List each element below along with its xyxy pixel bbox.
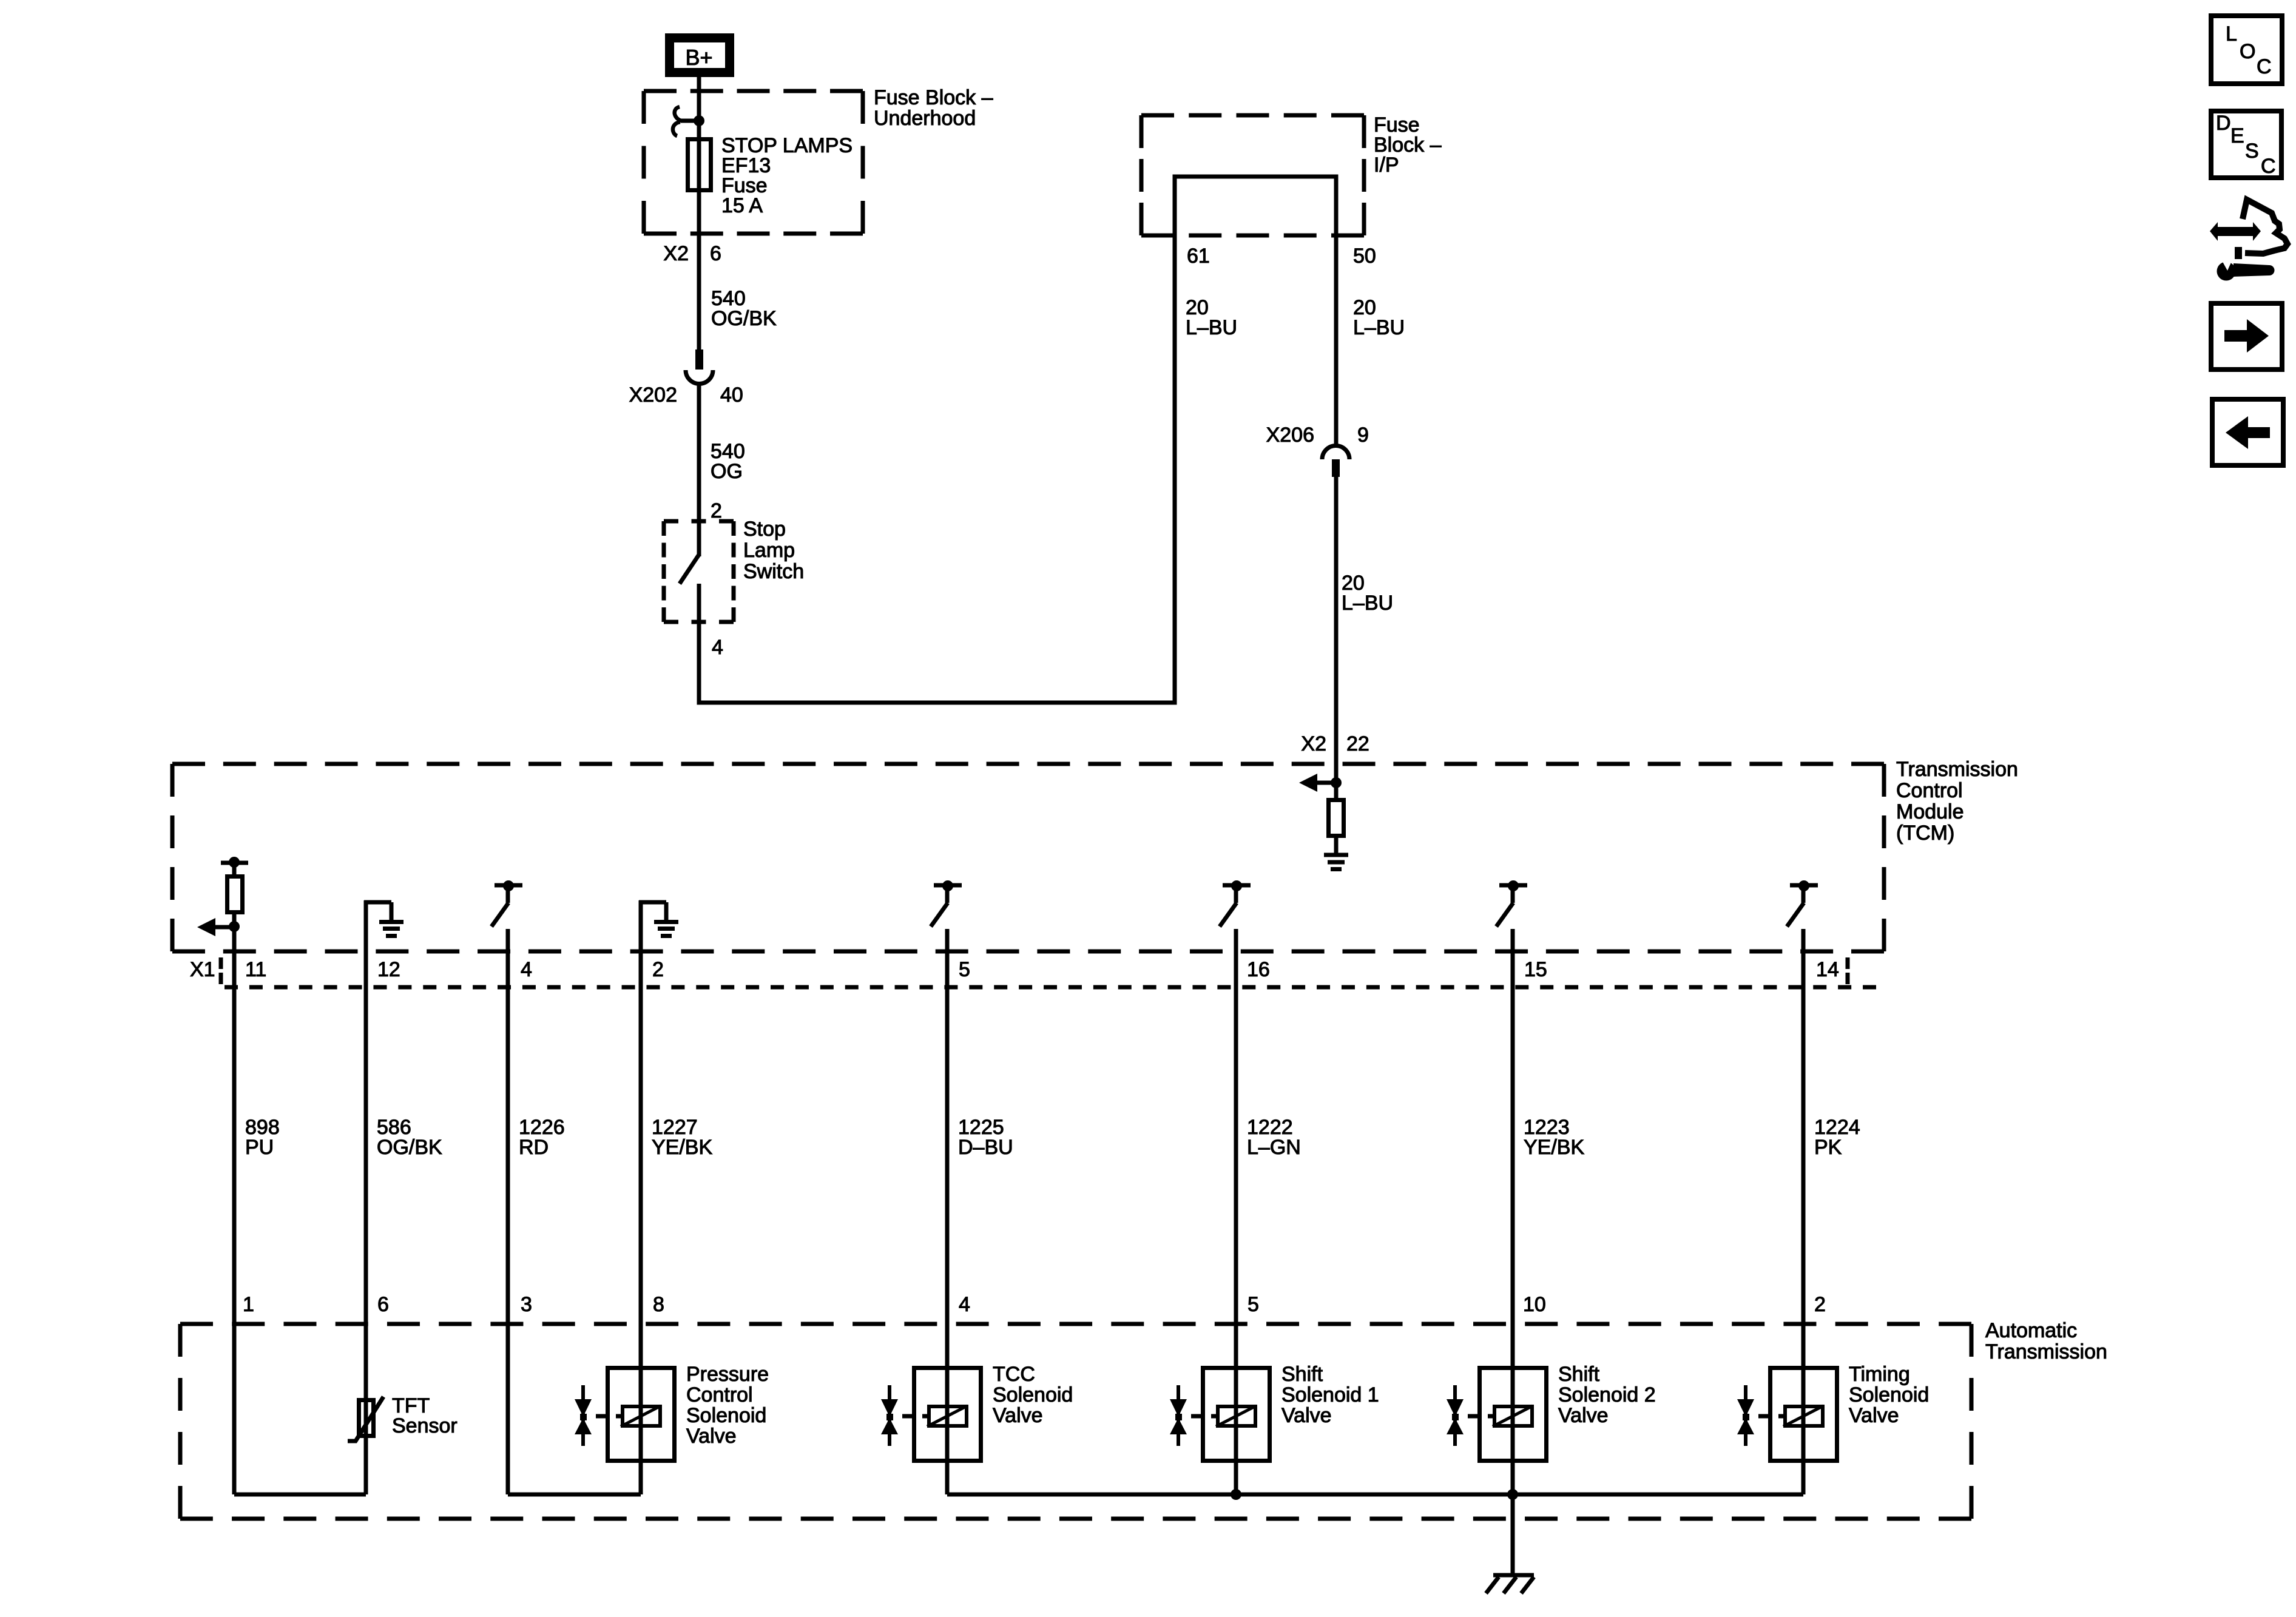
svg-text:C: C	[2261, 155, 2276, 178]
svg-text:Transmission: Transmission	[1896, 758, 2018, 781]
svg-text:6: 6	[710, 242, 721, 265]
svg-text:3: 3	[521, 1293, 532, 1316]
TCM entry arrow at pin 22	[1299, 774, 1317, 792]
svg-text:2: 2	[711, 499, 722, 522]
wire 1226 RD	[506, 929, 510, 1494]
TCM driver switch (wire 1223)	[1499, 883, 1527, 888]
svg-text:X206: X206	[1266, 424, 1314, 447]
wire 586 OG/BK	[364, 900, 368, 1494]
TFT sensor	[359, 1400, 374, 1436]
svg-text:O: O	[2240, 40, 2255, 63]
svg-text:40: 40	[720, 383, 743, 407]
svg-text:Solenoid: Solenoid	[993, 1383, 1073, 1406]
wire B+ to X202	[697, 76, 701, 370]
X1 connector dotted line	[225, 985, 1876, 990]
svg-text:OG: OG	[711, 460, 743, 483]
TFT sensor return bus	[234, 1493, 366, 1497]
svg-text:Valve: Valve	[993, 1404, 1043, 1427]
wire 1222 L-GN	[1234, 929, 1238, 1494]
junction dot at fuse feed	[694, 115, 704, 126]
svg-text:TCC: TCC	[993, 1363, 1035, 1386]
svg-text:Pressure: Pressure	[686, 1363, 769, 1386]
wire stop lamp switch to fuse block I/P pin 61	[699, 177, 1336, 703]
TCM internal ground (wire 586)	[364, 900, 391, 905]
svg-text:D–BU: D–BU	[958, 1136, 1013, 1159]
svg-text:Solenoid 1: Solenoid 1	[1281, 1383, 1379, 1406]
solenoid common ground bus	[947, 1493, 1803, 1497]
svg-text:X1: X1	[190, 958, 215, 981]
svg-text:9: 9	[1357, 424, 1369, 447]
svg-text:11: 11	[245, 958, 266, 981]
svg-text:Timing: Timing	[1849, 1363, 1910, 1386]
svg-text:C: C	[2257, 55, 2272, 78]
DESC icon box	[2211, 111, 2281, 178]
svg-text:E: E	[2230, 124, 2244, 147]
ground drop wire	[1511, 1494, 1515, 1575]
svg-text:6: 6	[377, 1293, 389, 1316]
pressure control return bus	[508, 1493, 641, 1497]
TCM sensor supply: bar, resistor and arrow (wire 898)	[221, 861, 248, 865]
TCM driver switch (wire 1224)	[1790, 883, 1818, 888]
forward arrow icon	[2211, 303, 2282, 370]
fuse block underhood box	[644, 89, 863, 93]
svg-text:12: 12	[377, 958, 400, 981]
svg-text:Fuse Block –: Fuse Block –	[874, 86, 993, 109]
TCM driver switch (wire 1222)	[1223, 883, 1251, 888]
TCC solenoid valve	[914, 1368, 981, 1461]
svg-text:L–BU: L–BU	[1342, 592, 1393, 615]
back arrow icon	[2212, 399, 2283, 465]
transmission control module box	[172, 762, 1884, 766]
svg-text:Solenoid: Solenoid	[686, 1404, 766, 1427]
svg-text:YE/BK: YE/BK	[652, 1136, 712, 1159]
svg-text:50: 50	[1353, 245, 1376, 268]
stop lamp switch box	[664, 519, 734, 524]
svg-text:X2: X2	[663, 242, 689, 265]
LOC icon box	[2211, 16, 2282, 84]
wire 898 PU	[232, 927, 237, 1494]
svg-text:Transmission: Transmission	[1985, 1340, 2107, 1363]
svg-text:X2: X2	[1301, 732, 1326, 755]
svg-text:15 A: 15 A	[721, 194, 763, 217]
svg-text:15: 15	[1524, 958, 1547, 981]
svg-text:L: L	[2226, 22, 2237, 46]
svg-text:Solenoid: Solenoid	[1849, 1383, 1929, 1406]
wire 1223 YE/BK	[1511, 929, 1515, 1494]
svg-text:RD: RD	[519, 1136, 549, 1159]
chassis ground	[1493, 1573, 1534, 1578]
svg-text:2: 2	[652, 958, 664, 981]
svg-text:Automatic: Automatic	[1985, 1319, 2077, 1342]
svg-text:I/P: I/P	[1374, 154, 1399, 177]
svg-text:5: 5	[1248, 1293, 1259, 1316]
pressure control solenoid valve	[608, 1368, 675, 1461]
shift solenoid 2 valve	[1480, 1368, 1547, 1461]
svg-text:61: 61	[1187, 245, 1210, 268]
shift solenoid 1 valve	[1203, 1368, 1270, 1461]
svg-text:4: 4	[959, 1293, 970, 1316]
svg-text:S: S	[2245, 140, 2259, 163]
svg-text:L–BU: L–BU	[1186, 316, 1237, 339]
svg-text:OG/BK: OG/BK	[377, 1136, 442, 1159]
svg-text:4: 4	[521, 958, 532, 981]
junction at shift solenoid 1	[1231, 1489, 1241, 1500]
svg-text:PK: PK	[1814, 1136, 1842, 1159]
svg-text:5: 5	[959, 958, 970, 981]
hand with wrench icon	[2218, 227, 2253, 236]
inline connector X206 pin 9	[1322, 446, 1349, 460]
wire 1224 PK	[1801, 929, 1806, 1494]
automatic transmission box	[180, 1322, 1971, 1326]
svg-text:14: 14	[1816, 958, 1839, 981]
svg-text:Solenoid 2: Solenoid 2	[1558, 1383, 1656, 1406]
svg-text:Shift: Shift	[1281, 1363, 1323, 1386]
junction at shift solenoid 2	[1507, 1489, 1518, 1500]
svg-text:Control: Control	[686, 1383, 753, 1406]
fuse EF13 15A	[688, 140, 711, 191]
svg-text:L–BU: L–BU	[1353, 316, 1405, 339]
svg-text:Module: Module	[1896, 800, 1964, 823]
svg-text:(TCM): (TCM)	[1896, 822, 1954, 845]
TCM pull-down resistor	[1334, 783, 1339, 798]
svg-text:Underhood: Underhood	[874, 107, 976, 130]
svg-text:Control: Control	[1896, 779, 1963, 802]
svg-text:16: 16	[1247, 958, 1270, 981]
svg-text:PU: PU	[245, 1136, 274, 1159]
svg-text:Sensor: Sensor	[392, 1414, 458, 1437]
svg-text:10: 10	[1523, 1293, 1546, 1316]
svg-text:Stop: Stop	[743, 518, 786, 541]
inline connector X202 pin 40	[695, 349, 703, 370]
TCM driver switch (wire 1225)	[934, 883, 962, 888]
svg-text:X202: X202	[629, 383, 677, 407]
svg-text:4: 4	[712, 636, 723, 659]
svg-text:OG/BK: OG/BK	[711, 307, 777, 330]
timing solenoid valve	[1771, 1368, 1837, 1461]
fusible element hook	[681, 119, 699, 123]
wire X206 to TCM pin 22	[1334, 477, 1339, 783]
svg-text:YE/BK: YE/BK	[1524, 1136, 1584, 1159]
svg-text:8: 8	[653, 1293, 664, 1316]
svg-text:Valve: Valve	[1281, 1404, 1332, 1427]
svg-text:Switch: Switch	[743, 560, 804, 583]
svg-text:Valve: Valve	[1558, 1404, 1609, 1427]
svg-text:Valve: Valve	[686, 1425, 737, 1448]
svg-text:2: 2	[1814, 1293, 1826, 1316]
fuse block I/P box	[1141, 113, 1364, 118]
stop lamp switch blade	[680, 555, 699, 584]
svg-text:Valve: Valve	[1849, 1404, 1899, 1427]
svg-text:B+: B+	[685, 45, 712, 70]
wire 1227 YE/BK	[639, 900, 643, 1494]
svg-text:1: 1	[243, 1293, 254, 1316]
svg-text:D: D	[2216, 112, 2231, 135]
svg-text:Lamp: Lamp	[743, 539, 795, 562]
B+ power terminal	[670, 38, 730, 73]
wire 1225 D-BU	[945, 929, 950, 1494]
TCM internal ground	[1324, 853, 1348, 857]
TCM driver switch (wire 1226)	[495, 883, 522, 888]
TCM internal ground (wire 1227)	[639, 900, 666, 905]
svg-text:22: 22	[1346, 732, 1369, 755]
wire X202 to stop lamp switch	[697, 384, 701, 556]
svg-text:Shift: Shift	[1558, 1363, 1600, 1386]
svg-text:L–GN: L–GN	[1247, 1136, 1301, 1159]
